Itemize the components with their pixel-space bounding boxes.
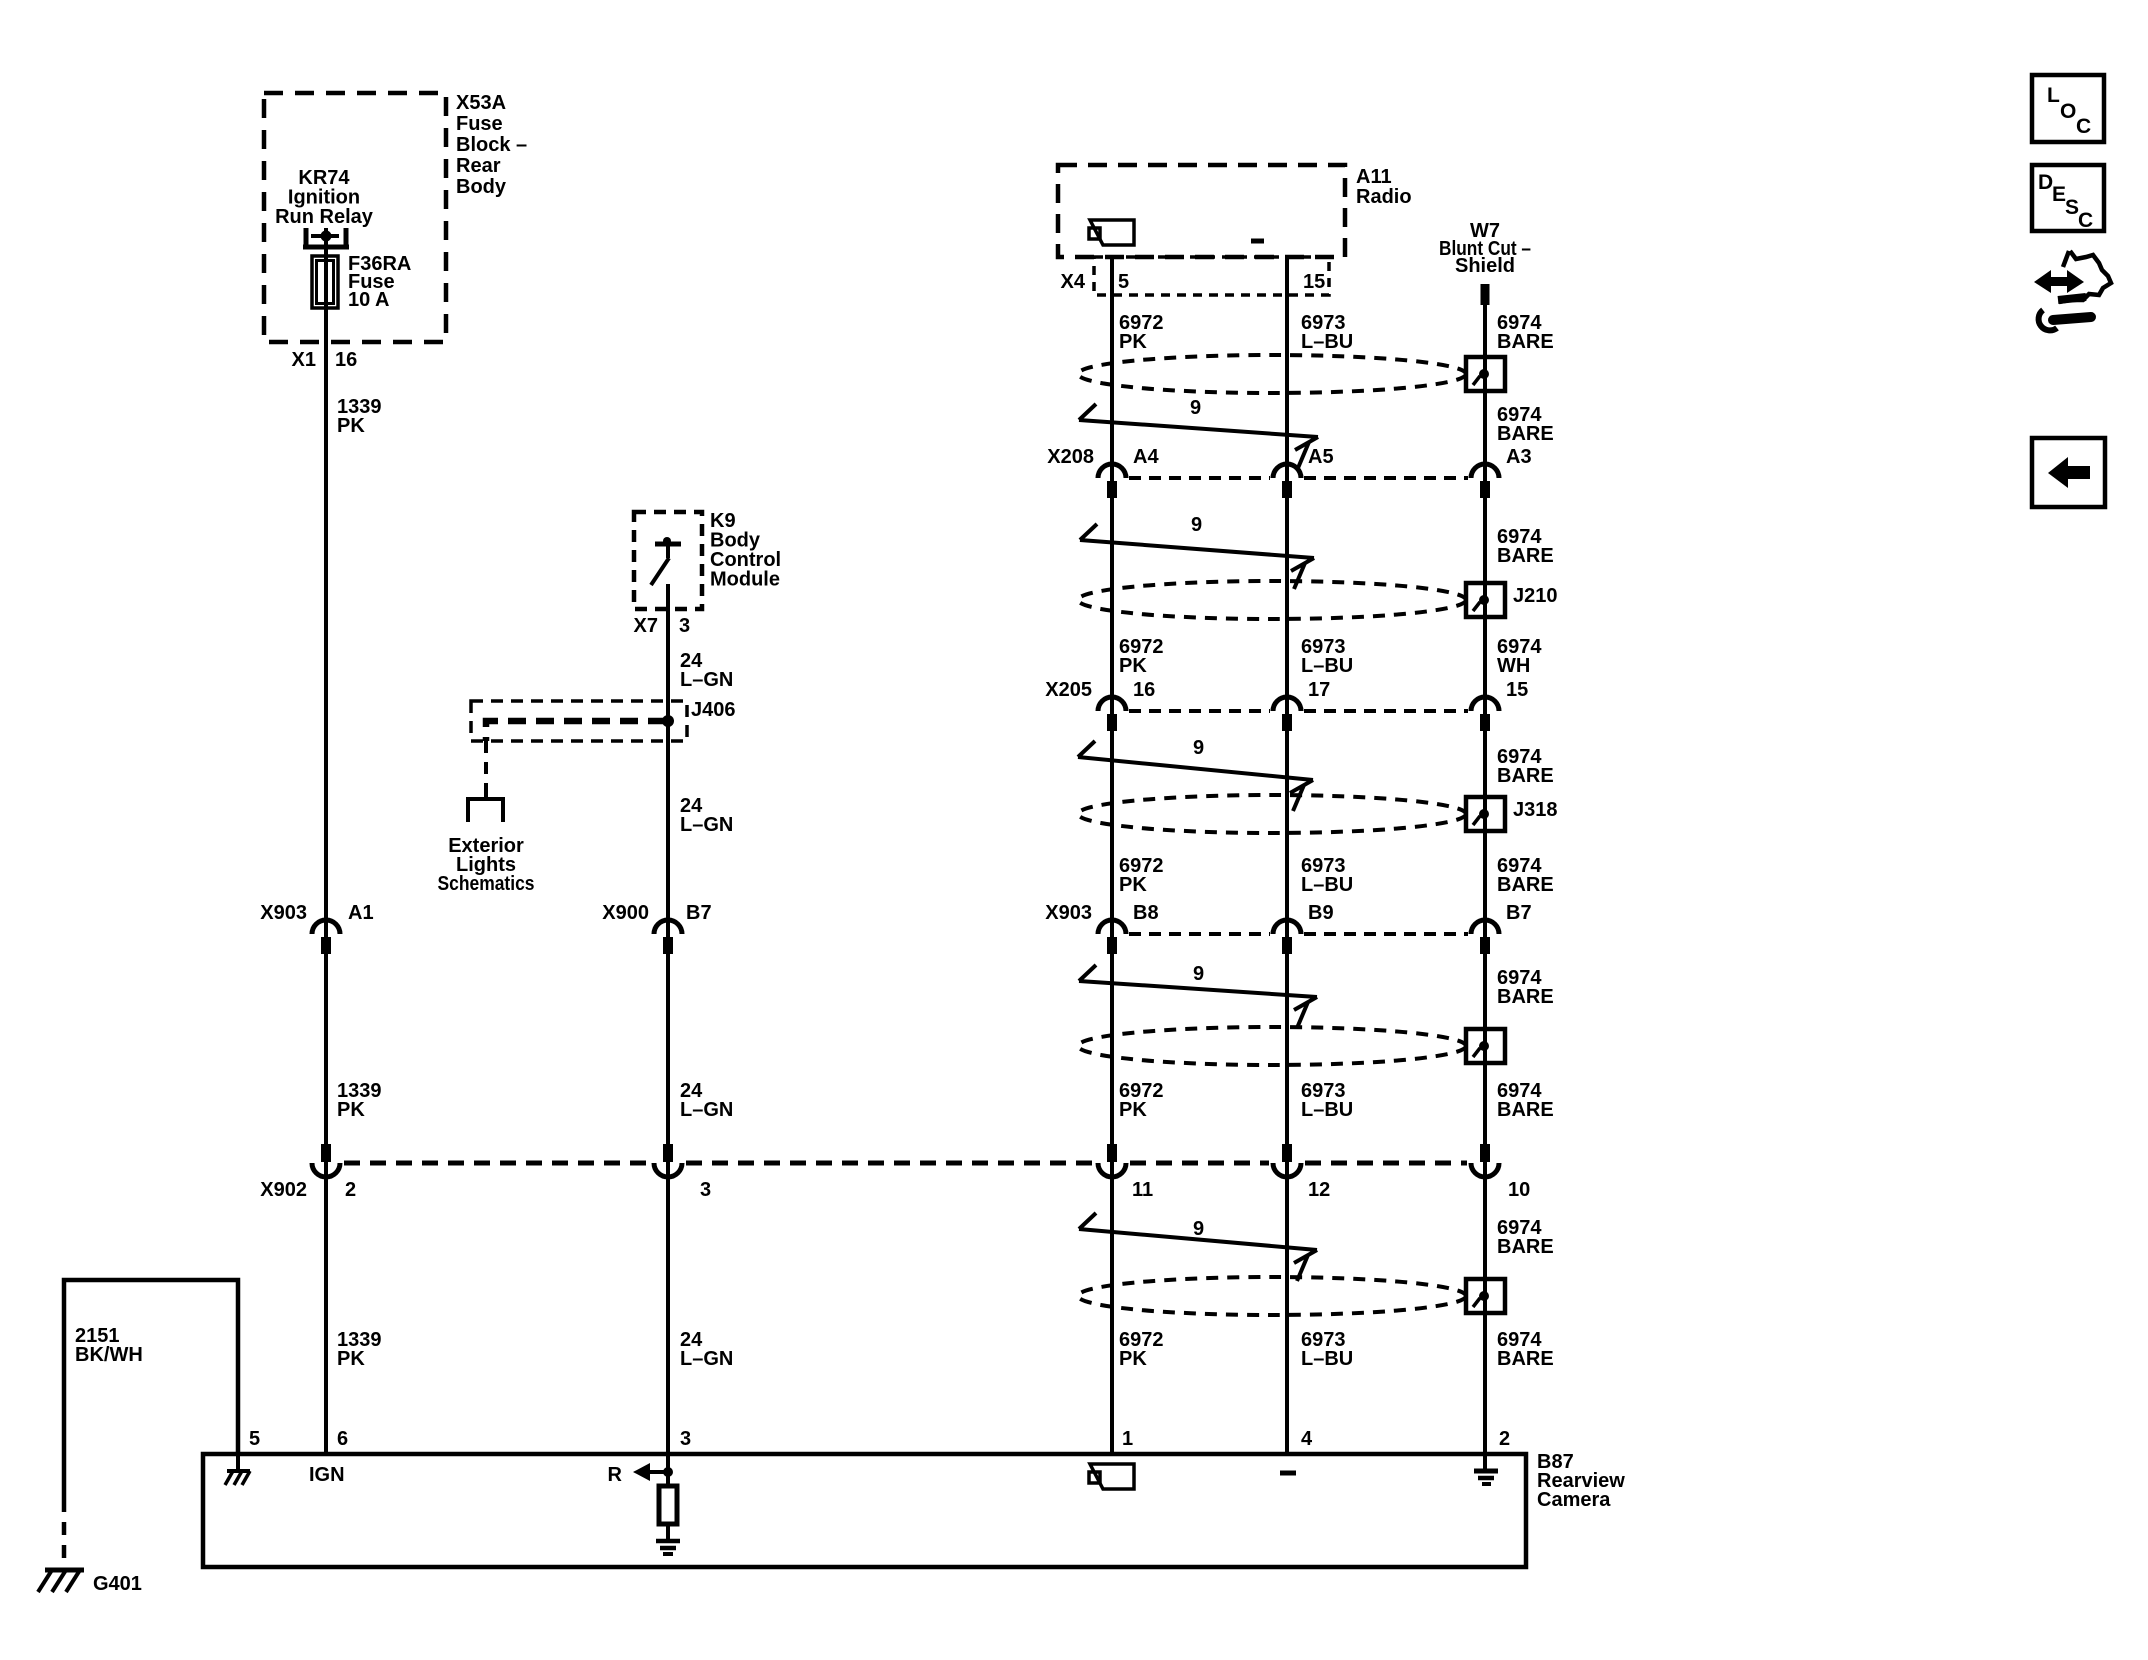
blunt cut W7 label [1439, 220, 1531, 277]
svg-text:9: 9 [1193, 1218, 1204, 1240]
connector X4 pin labels [1061, 271, 1326, 293]
svg-text:A11: A11 [1356, 166, 1392, 188]
svg-text:J406: J406 [691, 699, 736, 721]
svg-text:C: C [2076, 115, 2091, 138]
svg-text:15: 15 [1303, 271, 1325, 293]
svg-text:17: 17 [1308, 679, 1330, 701]
svg-text:X208: X208 [1047, 446, 1094, 468]
svg-text:L–GN: L–GN [680, 814, 733, 836]
svg-text:A4: A4 [1133, 446, 1159, 468]
svg-text:5: 5 [249, 1428, 260, 1450]
shield ellipse and drain splice 3 J318 [1078, 795, 1558, 833]
svg-text:Rear: Rear [456, 155, 501, 177]
wire 2151 BK/WH dashed segment to G401 [62, 1499, 67, 1566]
DESC legend box [2032, 165, 2104, 232]
svg-text:Run Relay: Run Relay [275, 206, 374, 228]
svg-text:L–GN: L–GN [680, 1348, 733, 1370]
camera icon in radio A11 [1089, 220, 1134, 245]
svg-text:16: 16 [335, 349, 357, 371]
wire label 6974 BARE above shield 5 [1497, 1217, 1554, 1258]
wire label 6974 BARE below shield 1 [1497, 404, 1554, 445]
svg-text:B9: B9 [1308, 902, 1334, 924]
svg-text:X53A: X53A [456, 92, 506, 114]
ground G401 label [93, 1573, 142, 1595]
svg-text:BARE: BARE [1497, 986, 1554, 1008]
BCM K9 internal switch symbol [651, 537, 681, 585]
connector X7 pin 3 labels [634, 615, 691, 637]
svg-text:X903: X903 [260, 902, 307, 924]
svg-text:E: E [2052, 183, 2066, 206]
svg-text:PK: PK [1119, 331, 1147, 353]
svg-text:G401: G401 [93, 1573, 142, 1595]
shield ellipse and drain splice 2 J210 [1078, 581, 1558, 619]
svg-text:C: C [2078, 209, 2093, 232]
svg-text:L–GN: L–GN [680, 669, 733, 691]
svg-text:1: 1 [1122, 1428, 1133, 1450]
wire labels 6972 PK / 6973 L-BU / 6974 BARE row 3 [1119, 855, 1554, 896]
twisted-pair symbol 1 with count 9 [1079, 397, 1318, 468]
in-line connector X903 pin A1 [260, 902, 373, 954]
in-line connector X902 pins 2 3 11 12 10 [260, 1144, 1530, 1201]
svg-text:B7: B7 [1506, 902, 1532, 924]
svg-text:BARE: BARE [1497, 1099, 1554, 1121]
svg-text:3: 3 [680, 1428, 691, 1450]
svg-text:Body: Body [456, 176, 507, 198]
svg-text:BARE: BARE [1497, 765, 1554, 787]
navigation double-arrow and wrench icon [2034, 251, 2111, 330]
svg-text:X205: X205 [1045, 679, 1092, 701]
twisted-pair symbol 4 with count 9 [1079, 963, 1317, 1028]
svg-text:X900: X900 [602, 902, 649, 924]
splice J406 label [691, 699, 736, 721]
minus terminal in radio A11 [1251, 239, 1264, 244]
svg-text:IGN: IGN [309, 1464, 345, 1486]
ground symbol under resistor [656, 1541, 680, 1554]
exterior lights off-page bracket [468, 791, 503, 822]
in-line connector X902 dashed harness line [344, 1161, 1467, 1166]
svg-text:9: 9 [1191, 514, 1202, 536]
in-line connector X903 [1045, 902, 1531, 954]
svg-text:10 A: 10 A [348, 289, 390, 311]
shield ellipse and drain splice 1 [1078, 355, 1505, 393]
svg-text:BARE: BARE [1497, 423, 1554, 445]
wire label 24 L-GN first [680, 650, 733, 691]
svg-text:L–BU: L–BU [1301, 1348, 1353, 1370]
fuse F36RA symbol [312, 256, 338, 308]
wire 6973 L-BU vertical from radio pin 15 to camera pin 4 [1285, 257, 1289, 1454]
svg-text:B8: B8 [1133, 902, 1159, 924]
resistor inside camera [659, 1486, 677, 1524]
svg-text:Block –: Block – [456, 134, 527, 156]
svg-text:PK: PK [337, 1348, 365, 1370]
connector X1 pin 16 labels [292, 349, 358, 371]
svg-text:R: R [608, 1464, 623, 1486]
radio A11 label [1356, 166, 1412, 208]
BCM K9 label [710, 510, 781, 591]
splice J406 outer dashed box [471, 701, 687, 741]
svg-text:Module: Module [710, 569, 780, 591]
svg-text:11: 11 [1132, 1179, 1153, 1201]
svg-text:L–BU: L–BU [1301, 655, 1353, 677]
in-line connector X208 [1047, 446, 1531, 498]
radio A11 dashed box [1058, 165, 1345, 257]
camera icon in B87 box [1089, 1464, 1134, 1489]
wire labels 6972 PK / 6973 L-BU / 6974 WH row 2 [1119, 636, 1542, 677]
svg-text:9: 9 [1193, 737, 1204, 759]
svg-text:Shield: Shield [1455, 255, 1515, 277]
wire label 6974 BARE above J318 [1497, 746, 1554, 787]
svg-text:J210: J210 [1513, 585, 1558, 607]
fuse block X53A label [456, 92, 527, 198]
svg-text:L: L [2047, 84, 2060, 107]
svg-text:4: 4 [1301, 1428, 1313, 1450]
svg-text:PK: PK [1119, 655, 1147, 677]
svg-text:X4: X4 [1061, 271, 1086, 293]
svg-text:PK: PK [1119, 874, 1147, 896]
wire labels bottom row [75, 1325, 1554, 1370]
svg-text:5: 5 [1118, 271, 1129, 293]
svg-text:X1: X1 [292, 349, 316, 371]
wire label 6974 BARE above shield 4 [1497, 967, 1554, 1008]
svg-text:X902: X902 [260, 1179, 307, 1201]
in-line connector X205 [1045, 679, 1528, 731]
svg-text:D: D [2038, 171, 2053, 194]
svg-text:A3: A3 [1506, 446, 1532, 468]
in-line connector X900 pin B7 [602, 902, 711, 954]
splice J406 inner dashed branch [486, 721, 666, 741]
svg-text:3: 3 [679, 615, 690, 637]
svg-text:A5: A5 [1308, 446, 1334, 468]
svg-text:Schematics: Schematics [438, 873, 535, 895]
svg-text:10: 10 [1508, 1179, 1530, 1201]
svg-text:L–BU: L–BU [1301, 331, 1353, 353]
twisted-pair symbol 3 with count 9 [1078, 737, 1313, 811]
svg-text:L–BU: L–BU [1301, 874, 1353, 896]
BCM K9 dashed box [634, 512, 702, 609]
svg-text:15: 15 [1506, 679, 1528, 701]
svg-text:WH: WH [1497, 655, 1530, 677]
svg-text:16: 16 [1133, 679, 1155, 701]
twisted-pair symbol 5 with count 9 [1079, 1213, 1317, 1281]
relay KR74 label [275, 167, 374, 228]
fuse F36RA label [348, 253, 411, 311]
exterior lights schematics label [438, 835, 535, 895]
svg-text:J318: J318 [1513, 799, 1558, 821]
svg-text:9: 9 [1190, 397, 1201, 419]
dashed branch wire to exterior lights [484, 741, 488, 791]
earth ground at camera pin 2 [1474, 1454, 1498, 1484]
blunt cut W7 bar [1481, 284, 1490, 305]
svg-text:S: S [2065, 196, 2079, 219]
svg-text:Camera: Camera [1537, 1489, 1611, 1511]
wire 2151 BK/WH loop from camera pin 5 to G401 [64, 1280, 238, 1499]
wire 1339 PK vertical from relay KR74 to camera pin 6 [324, 236, 328, 1454]
camera pin number labels [249, 1428, 1510, 1450]
chassis ground inside camera pin 5 [225, 1454, 250, 1485]
rearview camera B87 box [203, 1454, 1526, 1567]
svg-text:PK: PK [1119, 1348, 1147, 1370]
svg-text:PK: PK [1119, 1099, 1147, 1121]
svg-text:3: 3 [700, 1179, 711, 1201]
svg-text:B7: B7 [686, 902, 712, 924]
svg-text:PK: PK [337, 415, 365, 437]
wire 24 L-GN vertical from BCM K9 to camera pin 3 [666, 584, 670, 1486]
svg-text:6: 6 [337, 1428, 348, 1450]
rearview camera B87 label [1537, 1451, 1625, 1511]
back navigation arrow box [2032, 438, 2105, 507]
svg-text:O: O [2060, 100, 2076, 123]
wire 6972 PK vertical from radio pin 5 to camera pin 1 [1110, 257, 1114, 1454]
junction dot J406 on wire [662, 715, 674, 727]
wire labels 6972 PK / 6973 L-BU / 6974 BARE row 1 [1119, 312, 1554, 353]
svg-text:X7: X7 [634, 615, 658, 637]
svg-text:Fuse: Fuse [456, 113, 503, 135]
svg-text:BK/WH: BK/WH [75, 1344, 143, 1366]
wire label 1339 PK upper [337, 396, 382, 437]
relay KR74 contact symbol [303, 228, 349, 247]
IGN terminal label [309, 1464, 345, 1486]
svg-text:X903: X903 [1045, 902, 1092, 924]
fuse block X53A dashed box [264, 93, 446, 342]
svg-text:2: 2 [1499, 1428, 1510, 1450]
reverse signal R arrow at pin 3 [608, 1463, 673, 1486]
svg-text:9: 9 [1193, 963, 1204, 985]
wire resistor to ground [666, 1524, 670, 1540]
svg-text:PK: PK [337, 1099, 365, 1121]
svg-text:BARE: BARE [1497, 545, 1554, 567]
wire 6974 BARE shield drain vertical from blunt cut W7 to camera pin 2 [1483, 300, 1487, 1454]
twisted-pair symbol 2 with count 9 [1080, 514, 1314, 589]
minus terminal in B87 box [1280, 1471, 1296, 1476]
shield ellipse and drain splice 4 [1078, 1027, 1505, 1065]
connector X4 dashed box [1094, 257, 1329, 295]
svg-text:BARE: BARE [1497, 331, 1554, 353]
svg-text:BARE: BARE [1497, 1348, 1554, 1370]
svg-text:L–BU: L–BU [1301, 1099, 1353, 1121]
shield ellipse and drain splice 5 [1078, 1277, 1505, 1315]
svg-text:L–GN: L–GN [680, 1099, 733, 1121]
svg-text:2: 2 [345, 1179, 356, 1201]
wire label 24 L-GN second [680, 795, 733, 836]
wire labels row 4 incl 1339 PK and 24 L-GN [337, 1080, 1554, 1121]
wire label 6974 BARE above J210 [1497, 526, 1554, 567]
svg-text:BARE: BARE [1497, 874, 1554, 896]
svg-text:A1: A1 [348, 902, 374, 924]
svg-text:Radio: Radio [1356, 186, 1412, 208]
svg-text:12: 12 [1308, 1179, 1330, 1201]
LOC legend box [2032, 75, 2104, 142]
svg-text:BARE: BARE [1497, 1236, 1554, 1258]
ground G401 chassis symbol [38, 1570, 84, 1592]
